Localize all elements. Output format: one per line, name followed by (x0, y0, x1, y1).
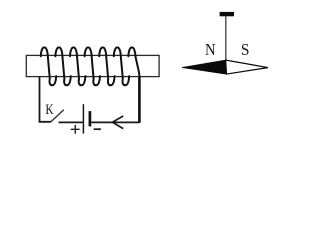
solenoid coil L1 (7 turns) (41, 47, 140, 85)
iron core (rectangle) (26, 55, 159, 76)
switch K blade (open) (51, 110, 64, 122)
battery B1 positive plate (long) (82, 104, 84, 133)
wire: battery negative to right corner (91, 121, 139, 123)
wire: switch to battery positive plate (59, 121, 83, 123)
svg-text:S: S (241, 40, 250, 59)
label − (94, 128, 101, 130)
label + (71, 125, 80, 134)
support bar for compass needle (220, 12, 234, 16)
current direction arrow (pointing left) (112, 116, 123, 129)
compass needle S pole (white half) (226, 60, 268, 74)
svg-text:K: K (45, 102, 53, 118)
compass needle N pole (black half) (182, 60, 227, 74)
svg-text:N: N (205, 40, 216, 59)
battery B1 negative plate (short, thick) (89, 111, 92, 126)
suspension string (225, 16, 227, 60)
wire: left lead of coil down to switch (40, 77, 51, 122)
wire: right lead of coil down to bottom wire (138, 77, 141, 123)
